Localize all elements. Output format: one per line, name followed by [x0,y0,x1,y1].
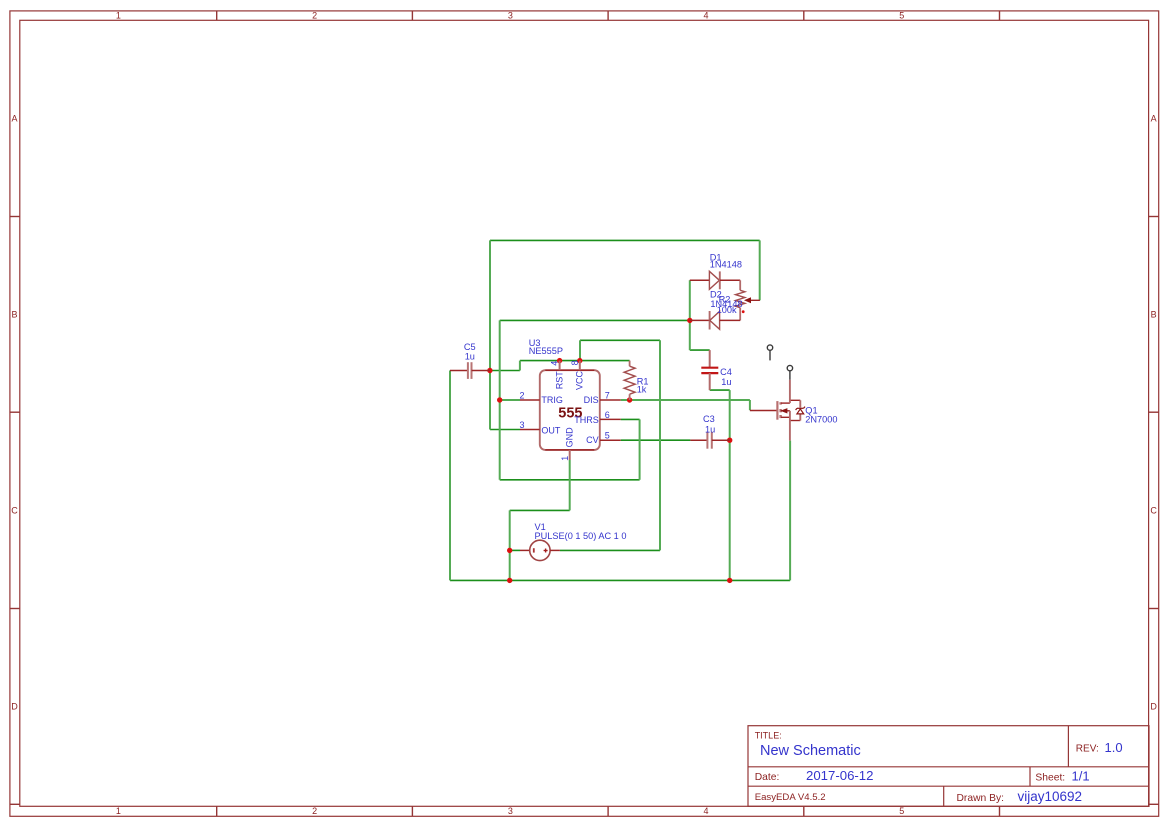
svg-text:R2: R2 [719,295,731,305]
svg-text:4: 4 [550,361,560,366]
svg-text:1: 1 [116,10,121,20]
svg-text:REV:: REV: [1076,743,1099,754]
svg-text:VCC: VCC [574,370,584,390]
svg-text:1u: 1u [705,424,715,434]
svg-text:RST: RST [554,371,564,390]
svg-text:C4: C4 [720,367,732,377]
svg-text:TITLE:: TITLE: [755,731,782,741]
svg-text:THRS: THRS [574,415,599,425]
svg-text:5: 5 [899,10,904,20]
svg-text:EasyEDA V4.5.2: EasyEDA V4.5.2 [755,792,826,803]
svg-text:2: 2 [312,806,317,816]
svg-text:C3: C3 [703,414,715,424]
svg-text:C: C [11,506,18,516]
svg-text:vijay10692: vijay10692 [1018,789,1083,804]
svg-text:A: A [11,114,17,124]
svg-text:1/1: 1/1 [1072,769,1090,784]
svg-text:D: D [11,702,18,712]
svg-text:1: 1 [560,456,570,461]
svg-text:1u: 1u [465,352,475,362]
svg-text:3: 3 [520,420,525,430]
svg-text:Date:: Date: [755,772,780,783]
svg-text:7: 7 [605,390,610,400]
svg-text:PULSE(0 1 50) AC 1 0: PULSE(0 1 50) AC 1 0 [535,531,627,541]
svg-text:2: 2 [312,10,317,20]
svg-text:6: 6 [605,410,610,420]
svg-text:OUT: OUT [541,425,561,435]
svg-text:2017-06-12: 2017-06-12 [806,768,873,783]
svg-text:3: 3 [508,10,513,20]
svg-text:CV: CV [586,435,599,445]
svg-text:C: C [1150,506,1157,516]
svg-text:NE555P: NE555P [529,346,563,356]
svg-text:4: 4 [703,806,708,816]
svg-text:2N7000: 2N7000 [805,414,837,424]
svg-text:1.0: 1.0 [1105,740,1123,755]
svg-text:DIS: DIS [584,395,599,405]
svg-text:Drawn By:: Drawn By: [957,793,1005,804]
svg-text:5: 5 [899,806,904,816]
svg-text:2: 2 [520,390,525,400]
svg-text:5: 5 [605,430,610,440]
svg-text:B: B [1151,310,1157,320]
svg-text:1k: 1k [637,385,647,395]
svg-text:8: 8 [570,360,580,365]
svg-text:1u: 1u [721,377,731,387]
svg-text:A: A [1151,114,1157,124]
svg-text:TRIG: TRIG [541,395,563,405]
svg-text:1: 1 [116,806,121,816]
svg-text:1N4148: 1N4148 [710,260,742,270]
svg-text:Sheet:: Sheet: [1035,773,1065,784]
svg-text:3: 3 [508,806,513,816]
svg-text:B: B [11,310,17,320]
svg-text:D: D [1150,702,1157,712]
svg-text:New Schematic: New Schematic [760,743,861,759]
svg-text:4: 4 [703,10,708,20]
svg-text:100k: 100k [717,305,737,315]
svg-text:C5: C5 [464,342,476,352]
svg-text:GND: GND [565,427,575,448]
